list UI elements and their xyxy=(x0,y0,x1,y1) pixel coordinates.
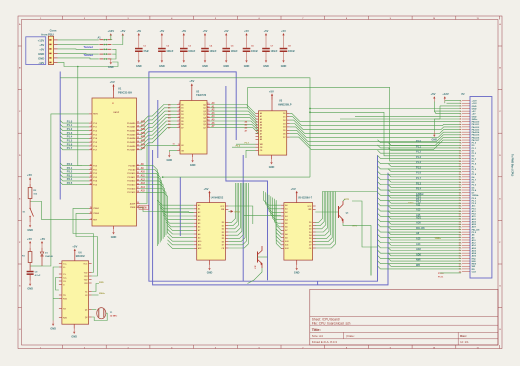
bus vertical mid xyxy=(242,155,244,281)
wire address to U4 xyxy=(166,222,194,227)
wire to P2 pin xyxy=(378,240,462,243)
wire P3.2 xyxy=(60,170,89,174)
wire PA1-D1 xyxy=(290,117,461,126)
bus line inner xyxy=(153,150,388,285)
svg-text:Rev:: Rev: xyxy=(460,334,467,338)
svg-text:A0: A0 xyxy=(285,204,287,207)
svg-text:10: 10 xyxy=(433,347,435,349)
svg-text:7: 7 xyxy=(302,347,303,349)
svg-text:P0.4/AD4: P0.4/AD4 xyxy=(127,137,136,140)
svg-text:A11: A11 xyxy=(416,203,421,206)
svg-text:32: 32 xyxy=(137,148,139,150)
svg-text:A7: A7 xyxy=(285,229,287,232)
svg-text:8c: 8c xyxy=(460,140,462,142)
svg-text:PA7-D7: PA7-D7 xyxy=(472,139,480,142)
svg-text:P1.11: P1.11 xyxy=(438,276,444,278)
svg-text:A5: A5 xyxy=(260,127,262,130)
wire crystal loop xyxy=(92,313,108,320)
wire PA4-D4 xyxy=(290,127,461,138)
svg-text:C2-: C2- xyxy=(63,281,66,283)
svg-text:4: 4 xyxy=(179,109,180,112)
wire +12V to P2 rows xyxy=(444,102,446,104)
power +5V xyxy=(110,80,115,91)
wire PA6-D6 xyxy=(290,134,461,146)
svg-text:31: 31 xyxy=(112,103,114,105)
svg-text:A0: A0 xyxy=(198,204,200,207)
svg-text:GTC1: GTC1 xyxy=(234,211,241,213)
svg-text:D1: D1 xyxy=(222,225,224,227)
wire +12V row1 xyxy=(445,100,461,102)
svg-text:15: 15 xyxy=(207,116,209,118)
svg-text:Twisted: Twisted xyxy=(84,53,94,57)
wire U6 right small xyxy=(92,284,99,292)
svg-text:P1.10: P1.10 xyxy=(438,273,444,275)
capacitor C4 100nF xyxy=(201,29,217,68)
wire address to U5 xyxy=(274,199,281,227)
svg-text:D3: D3 xyxy=(283,123,285,125)
bus vertical AD xyxy=(157,100,159,158)
svg-text:6: 6 xyxy=(259,347,260,349)
wire U4 WE xyxy=(244,215,281,217)
svg-text:22: 22 xyxy=(137,168,139,170)
svg-text:6a: 6a xyxy=(460,127,462,129)
wire data U4 xyxy=(228,183,242,235)
svg-text:P3.3: P3.3 xyxy=(93,177,97,179)
svg-text:A3: A3 xyxy=(260,121,262,124)
svg-text:Q2: Q2 xyxy=(203,111,206,113)
wire route 3 xyxy=(310,112,461,156)
svg-text:P3.6: P3.6 xyxy=(236,145,241,147)
svg-text:Title:: Title: xyxy=(312,328,321,332)
svg-text:A13: A13 xyxy=(416,209,421,212)
svg-text:R2O: R2O xyxy=(63,317,67,319)
svg-text:P1.6: P1.6 xyxy=(67,142,73,146)
svg-text:P3.0: P3.0 xyxy=(93,166,97,168)
svg-text:P3.4: P3.4 xyxy=(472,189,477,192)
svg-text:+5V: +5V xyxy=(110,80,115,84)
svg-text:P1.3: P1.3 xyxy=(67,131,73,135)
svg-text:11: 11 xyxy=(178,144,180,146)
svg-text:PSEN: PSEN xyxy=(140,208,147,210)
svg-text:4: 4 xyxy=(91,132,92,135)
wire P1.1 xyxy=(60,123,89,127)
svg-text:P3.5: P3.5 xyxy=(93,185,97,187)
svg-text:P3.2: P3.2 xyxy=(93,173,97,175)
wire A1 xyxy=(210,105,256,116)
wire address to U5 xyxy=(264,191,281,205)
svg-text:P2.1/A9: P2.1/A9 xyxy=(128,168,135,171)
svg-text:D7: D7 xyxy=(222,245,224,247)
svg-text:D7: D7 xyxy=(309,245,311,247)
svg-text:RST1: RST1 xyxy=(93,114,98,116)
svg-text:6: 6 xyxy=(179,116,180,118)
crystal Y1 12MHz xyxy=(92,308,119,319)
svg-text:1: 1 xyxy=(40,347,41,349)
IC U6 74HC4060 xyxy=(59,250,92,329)
wire EA pin to left loop xyxy=(42,114,89,266)
svg-text:D7: D7 xyxy=(283,137,285,139)
svg-text:A1: A1 xyxy=(260,115,262,118)
connector P2 xyxy=(459,93,492,278)
svg-text:GND: GND xyxy=(269,166,275,169)
wire to P2 pin xyxy=(378,155,462,159)
capacitor C5 100nF xyxy=(222,29,238,68)
svg-text:8: 8 xyxy=(179,123,180,125)
svg-text:36: 36 xyxy=(137,133,139,135)
wire to P2 pin xyxy=(378,245,462,248)
wire to P2 pin xyxy=(388,205,461,208)
capacitor C9 4.7uF xyxy=(27,266,41,281)
svg-text:12: 12 xyxy=(207,126,209,128)
svg-text:P0.1/AD1: P0.1/AD1 xyxy=(127,126,135,129)
wire address to U5 xyxy=(269,195,281,216)
svg-text:DTR: DTR xyxy=(345,199,350,201)
svg-text:P1.2: P1.2 xyxy=(67,127,73,131)
ground xyxy=(432,132,438,142)
svg-text:P2.0/A8: P2.0/A8 xyxy=(128,165,135,168)
svg-text:27: 27 xyxy=(137,187,139,189)
wire to P2 pin xyxy=(388,174,461,177)
svg-text:GND: GND xyxy=(50,327,56,330)
svg-text:PSEN: PSEN xyxy=(130,207,136,209)
svg-text:U4 M48Z02: U4 M48Z02 xyxy=(211,197,224,200)
svg-text:+5V: +5V xyxy=(269,89,274,93)
wire to P2 pin xyxy=(388,169,461,172)
svg-text:Q3: Q3 xyxy=(203,114,206,116)
capacitor C7 100nF xyxy=(262,29,278,68)
resistor R1 xyxy=(22,248,32,267)
wire P1.4 xyxy=(60,135,89,139)
wire +12V from PSU xyxy=(58,39,99,41)
svg-text:GND: GND xyxy=(223,65,229,68)
wire to P2 pin xyxy=(388,179,461,182)
wire to P2 pin xyxy=(378,198,462,202)
svg-text:NMI: NMI xyxy=(416,259,421,262)
svg-text:3: 3 xyxy=(128,347,129,349)
wire to P2 pin xyxy=(388,237,461,241)
wire GND 1 xyxy=(58,52,99,55)
svg-text:25: 25 xyxy=(137,180,139,182)
wire -12V xyxy=(58,62,119,67)
svg-text:P3.3: P3.3 xyxy=(416,182,422,185)
wire data U5 xyxy=(315,192,324,226)
svg-text:47uF: 47uF xyxy=(143,50,149,53)
svg-text:AD1: AD1 xyxy=(472,218,477,221)
svg-text:10: 10 xyxy=(90,164,92,166)
svg-text:GND: GND xyxy=(432,138,438,141)
svg-text:-12V: -12V xyxy=(38,61,44,65)
svg-text:P0.0/AD0: P0.0/AD0 xyxy=(127,122,135,125)
wire 2MHz out xyxy=(92,294,99,296)
title block xyxy=(310,289,498,345)
svg-text:P3.3: P3.3 xyxy=(67,173,73,177)
svg-text:P2.2/A10: P2.2/A10 xyxy=(127,172,135,175)
svg-text:AD5: AD5 xyxy=(416,222,421,225)
svg-text:D3: D3 xyxy=(309,232,311,234)
svg-text:PA1-D1: PA1-D1 xyxy=(472,123,480,126)
wire to P2 pin xyxy=(388,248,461,252)
svg-text:7a: 7a xyxy=(460,132,462,134)
svg-text:14: 14 xyxy=(207,119,209,122)
svg-text:16: 16 xyxy=(207,113,209,115)
svg-text:D1: D1 xyxy=(283,117,285,119)
wire Q1 base xyxy=(315,211,338,213)
svg-text:13: 13 xyxy=(90,176,92,178)
wire data U4 xyxy=(228,183,243,238)
svg-text:100nF: 100nF xyxy=(271,50,278,53)
svg-text:D5: D5 xyxy=(181,121,183,123)
svg-text:6: 6 xyxy=(259,18,260,20)
svg-text:GND: GND xyxy=(136,65,142,68)
svg-text:4.7uF: 4.7uF xyxy=(35,274,41,277)
wire OE to gnd xyxy=(169,151,177,152)
svg-text:18: 18 xyxy=(207,106,209,108)
svg-text:P1.0: P1.0 xyxy=(67,119,73,123)
svg-text:100nF: 100nF xyxy=(210,50,217,53)
svg-text:+5V: +5V xyxy=(39,43,44,47)
wire AD3 xyxy=(140,114,178,135)
svg-text:AD0: AD0 xyxy=(472,247,477,250)
svg-text:P3.1: P3.1 xyxy=(93,169,97,171)
wire address to U4 xyxy=(162,211,194,216)
svg-text:D2: D2 xyxy=(283,120,285,122)
wire address to U4 xyxy=(159,204,194,209)
svg-text:D7: D7 xyxy=(181,127,183,129)
power +5V xyxy=(72,245,77,255)
wire CS xyxy=(246,150,256,158)
svg-text:Id: 1/1: Id: 1/1 xyxy=(460,340,469,344)
capacitor C3 100nF xyxy=(180,29,196,68)
svg-text:A1: A1 xyxy=(198,208,200,211)
svg-text:12: 12 xyxy=(90,172,92,174)
svg-text:3: 3 xyxy=(128,18,129,20)
IC U5 62256A-7 xyxy=(281,192,316,265)
svg-text:+5V: +5V xyxy=(181,29,186,33)
svg-text:C1-: C1- xyxy=(63,274,66,276)
svg-text:AD3: AD3 xyxy=(472,220,477,223)
svg-text:6: 6 xyxy=(91,141,92,143)
wire left low route xyxy=(41,265,43,267)
wire to P2 pin xyxy=(378,166,462,170)
wire to P2 pin xyxy=(378,161,462,165)
svg-text:7: 7 xyxy=(91,145,92,147)
svg-text:P1.2: P1.2 xyxy=(416,151,422,154)
svg-text:A8: A8 xyxy=(285,233,287,236)
svg-text:100nF: 100nF xyxy=(288,50,295,53)
svg-text:8: 8 xyxy=(346,347,347,349)
wire DTR to ladder xyxy=(352,201,378,247)
wire to P2 pin xyxy=(388,253,461,257)
svg-text:VCC: VCC xyxy=(307,206,312,208)
svg-text:2: 2 xyxy=(84,347,85,349)
ground xyxy=(190,157,196,167)
wire address to U5 xyxy=(273,198,281,224)
svg-text:PA0-D0: PA0-D0 xyxy=(472,121,480,124)
svg-text:1: 1 xyxy=(179,149,180,151)
wire data U4 xyxy=(228,183,240,232)
svg-text:R2I: R2I xyxy=(84,283,87,285)
wire to P2 pin xyxy=(378,229,462,232)
wire to P2 pin xyxy=(378,182,462,186)
svg-text:13: 13 xyxy=(207,123,209,125)
wire to P2 pin xyxy=(378,177,462,181)
svg-text:P3.4: P3.4 xyxy=(416,188,422,191)
svg-text:A11: A11 xyxy=(198,244,201,247)
wire data U4 xyxy=(228,183,248,248)
bus vertical left of U1 xyxy=(59,72,61,200)
wire mid route xyxy=(162,176,310,178)
svg-text:D6: D6 xyxy=(283,134,285,136)
svg-text:D5: D5 xyxy=(283,130,285,132)
svg-text:A9: A9 xyxy=(198,236,200,239)
svg-text:15: 15 xyxy=(90,183,92,185)
svg-text:GND: GND xyxy=(159,65,165,68)
svg-text:+5V: +5V xyxy=(244,29,249,33)
svg-text:PAL-D8: PAL-D8 xyxy=(416,227,425,230)
wire data U4 xyxy=(228,183,246,245)
IC U4 M48Z02 xyxy=(194,192,229,265)
svg-text:+5V: +5V xyxy=(160,29,165,33)
svg-text:P1.3: P1.3 xyxy=(416,156,422,159)
svg-text:+5V: +5V xyxy=(281,29,286,33)
wire data U5 xyxy=(315,192,335,249)
wire data U4 xyxy=(228,183,245,242)
capacitor C2 100nF xyxy=(158,29,174,68)
svg-text:2: 2 xyxy=(84,18,85,20)
svg-text:P0.6/AD6: P0.6/AD6 xyxy=(127,145,135,148)
svg-text:9: 9 xyxy=(179,126,180,128)
svg-text:P1.1: P1.1 xyxy=(93,127,97,129)
svg-text:GND: GND xyxy=(181,65,187,68)
svg-text:Q7: Q7 xyxy=(203,127,206,129)
svg-text:P0.5/AD5: P0.5/AD5 xyxy=(127,141,135,144)
net label RTS xyxy=(343,223,357,228)
svg-text:2c: 2c xyxy=(460,108,462,110)
wire address to U4 xyxy=(167,233,193,238)
power +12V xyxy=(442,92,449,102)
svg-text:A7: A7 xyxy=(260,132,262,135)
wire address to U4 xyxy=(160,207,194,212)
svg-text:D6: D6 xyxy=(309,241,311,243)
svg-text:PA5-D5: PA5-D5 xyxy=(472,134,480,137)
wire A11 xyxy=(140,175,162,241)
IC U3 HM62256 RAM xyxy=(256,95,292,159)
svg-text:P2.5/A13: P2.5/A13 xyxy=(127,184,135,187)
svg-text:+5V: +5V xyxy=(189,79,194,83)
svg-text:HM62256LP: HM62256LP xyxy=(278,103,292,106)
svg-text:GND: GND xyxy=(263,65,269,68)
svg-text:AD7: AD7 xyxy=(472,226,477,229)
wire net 2MHz top route xyxy=(60,78,311,177)
connector J1 from PSU xyxy=(26,29,58,65)
wire to P2 pin xyxy=(388,148,461,151)
svg-text:GND: GND xyxy=(190,164,196,167)
wire U6 left2 xyxy=(56,278,59,291)
svg-text:T2O: T2O xyxy=(84,279,88,281)
bus line U2-U4 region xyxy=(226,86,268,280)
power +5V xyxy=(189,79,194,90)
svg-text:EA/VP: EA/VP xyxy=(114,111,120,114)
svg-text:P2.6/A14: P2.6/A14 xyxy=(127,187,136,190)
svg-text:1: 1 xyxy=(40,18,41,20)
svg-text:A13: A13 xyxy=(141,182,146,185)
svg-text:D0: D0 xyxy=(283,113,285,115)
power +12V xyxy=(107,29,114,40)
svg-text:+5V: +5V xyxy=(72,245,77,249)
wire U6 left to gnd xyxy=(53,267,59,321)
wire to P2 pin xyxy=(378,140,462,144)
svg-text:6c: 6c xyxy=(460,129,462,131)
svg-text:A14: A14 xyxy=(141,186,146,189)
switch S1 xyxy=(23,206,34,223)
svg-text:R1I: R1I xyxy=(84,276,87,278)
svg-text:P1.4: P1.4 xyxy=(416,161,422,164)
svg-text:GND: GND xyxy=(38,57,44,61)
wire P1.2 xyxy=(60,127,89,131)
svg-text:A9: A9 xyxy=(260,138,262,141)
svg-text:D5: D5 xyxy=(309,238,311,240)
wire address to U4 xyxy=(163,215,194,220)
wire address to U4 xyxy=(167,225,193,230)
svg-text:PA6-D6: PA6-D6 xyxy=(472,136,480,139)
svg-text:Twisted: Twisted xyxy=(84,45,94,49)
wire header gnd bundle xyxy=(111,49,116,59)
wire A2 xyxy=(210,109,256,120)
svg-text:+5V: +5V xyxy=(27,173,32,177)
svg-text:29: 29 xyxy=(137,206,139,208)
wire data U4 xyxy=(228,183,235,222)
svg-text:D3: D3 xyxy=(222,232,224,234)
svg-text:VCC: VCC xyxy=(220,206,225,208)
svg-text:P1.7: P1.7 xyxy=(67,146,73,150)
svg-text:+5V: +5V xyxy=(430,92,435,96)
wire PA5-D5 xyxy=(290,130,461,141)
svg-text:PA4-D4: PA4-D4 xyxy=(472,131,480,134)
bus rectangle around U2 region xyxy=(149,72,378,281)
svg-text:100nF: 100nF xyxy=(231,50,238,53)
svg-text:7: 7 xyxy=(302,18,303,20)
wire A6 xyxy=(210,122,258,131)
wire data U5 xyxy=(315,192,330,239)
svg-text:1N4148: 1N4148 xyxy=(45,255,53,258)
svg-text:AD6: AD6 xyxy=(472,255,477,258)
svg-text:A6: A6 xyxy=(260,130,262,133)
svg-text:P1.6: P1.6 xyxy=(416,172,422,175)
svg-text:XTAL2: XTAL2 xyxy=(93,212,99,215)
transistor Q1 xyxy=(339,201,350,223)
wire P1.0 xyxy=(60,119,89,123)
wire AD4 xyxy=(140,117,178,139)
net label GTC1 at U4 xyxy=(228,210,240,213)
svg-text:A2: A2 xyxy=(285,211,287,214)
svg-text:A12: A12 xyxy=(141,178,146,181)
wire +12V row2 xyxy=(447,102,462,104)
svg-text:2MHz: 2MHz xyxy=(99,293,106,295)
svg-text:+5V: +5V xyxy=(39,48,44,52)
wire P3.5 xyxy=(60,181,89,185)
wire top route 2 xyxy=(248,87,461,161)
svg-text:P1.1: P1.1 xyxy=(416,145,422,148)
svg-text:P3.7: P3.7 xyxy=(245,142,250,144)
svg-text:MAX232: MAX232 xyxy=(76,255,86,258)
wire reset node xyxy=(30,265,42,267)
ground xyxy=(50,321,56,331)
svg-text:9: 9 xyxy=(390,18,391,20)
capacitor C6 100nF xyxy=(243,29,259,68)
svg-text:A8: A8 xyxy=(198,233,200,236)
svg-text:Q1: Q1 xyxy=(85,309,88,311)
net label P3.6 xyxy=(232,145,256,147)
